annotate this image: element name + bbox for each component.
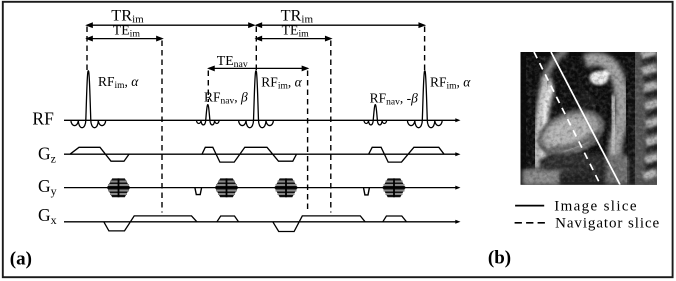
dashed line at nav echo xyxy=(307,71,309,213)
Gx readout gradient 1 xyxy=(104,216,197,231)
descending aorta bright edge xyxy=(612,95,615,158)
Gy nav small lobe 2 xyxy=(364,188,370,195)
svg-text:(b): (b) xyxy=(488,248,511,269)
Gy phase-encode table 2 xyxy=(215,178,238,197)
dashed line at RF pulse 2 xyxy=(255,27,257,71)
MR image background xyxy=(521,52,658,185)
Gz slice-select gradient 1 xyxy=(70,147,129,161)
heart oval outer rim xyxy=(531,100,612,165)
bottom-left stomach gray block xyxy=(523,170,560,185)
Gx axis xyxy=(64,221,457,223)
dashed line at echo 1 xyxy=(161,41,163,213)
svg-text:Navigator slice: Navigator slice xyxy=(555,215,660,231)
RF sinc pulse im3 xyxy=(407,71,442,128)
diaphragm dark wedge below heart xyxy=(545,153,604,172)
Gy phase-encode table 4 xyxy=(383,178,406,197)
spine column base xyxy=(635,52,657,185)
speckle noise bright xyxy=(526,56,654,182)
Gx nav readout 1 xyxy=(217,216,239,222)
dark gap before spine xyxy=(628,85,636,185)
bottom-right gray patch xyxy=(606,154,634,184)
bottom center dark xyxy=(560,172,606,185)
chest wall bright white wedge xyxy=(539,76,554,158)
RF sinc pulse im2 xyxy=(239,71,274,128)
dark atrium patch xyxy=(574,93,596,112)
svg-text:(a): (a) xyxy=(10,249,32,270)
speckle noise dark xyxy=(521,52,658,185)
bottom abdominal gray band xyxy=(522,165,657,185)
image slice solid line on image xyxy=(551,52,620,185)
Gy axis xyxy=(64,187,457,189)
Gx readout gradient 2 xyxy=(273,216,365,232)
Gy nav small lobe 1 xyxy=(195,188,202,195)
bright vessel blob (pulmonary artery) xyxy=(590,71,609,85)
Gy phase-encode table 1 xyxy=(107,178,130,197)
legend solid line xyxy=(515,205,544,207)
Gz nav + slice-select gradient 3 xyxy=(369,147,445,162)
dashed line at echo 2 xyxy=(330,41,332,213)
Gy phase-encode table 3 xyxy=(275,178,298,197)
dashed line at RF pulse 1 xyxy=(86,27,88,71)
lung dark field base xyxy=(521,52,658,185)
TE_nav arrow xyxy=(209,67,308,69)
svg-text:RF: RF xyxy=(32,109,54,129)
RF sinc pulse nav1 xyxy=(197,105,220,125)
dashed line at RF pulse 3 xyxy=(424,27,426,71)
vertebrae bright streaks xyxy=(640,49,661,180)
TE_im arrow 1 xyxy=(87,38,162,40)
svg-text:Image slice: Image slice xyxy=(554,199,638,215)
Gz nav + slice-select gradient 2 xyxy=(202,147,297,162)
RF sinc pulse im1 xyxy=(71,71,106,128)
legend dashed line xyxy=(515,222,545,224)
RF sinc pulse nav2 xyxy=(364,105,387,125)
TR_im arrow 2 xyxy=(256,24,424,26)
Gx nav readout 2 xyxy=(383,216,407,222)
RF axis xyxy=(64,119,457,121)
dashed line at nav pulse 1 xyxy=(207,71,209,103)
navigator slice dashed line on image xyxy=(534,52,600,185)
TE_im arrow 2 xyxy=(256,38,331,40)
aortic arch gray band xyxy=(585,59,622,160)
TR_im arrow 1 xyxy=(87,24,254,26)
Gz axis xyxy=(64,153,457,155)
chest wall bright band xyxy=(545,50,567,80)
